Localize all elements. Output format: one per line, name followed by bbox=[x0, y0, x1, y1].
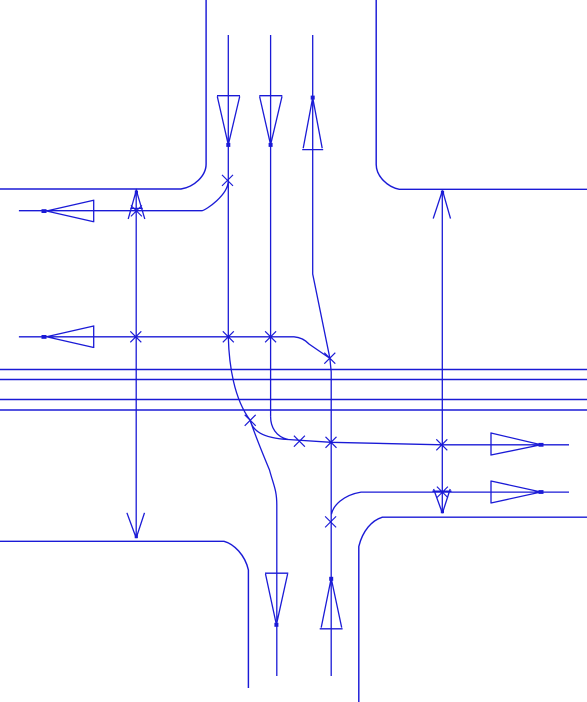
lane east-approach vertical bbox=[441, 190, 443, 513]
arrow right eastbound lane 2 bbox=[491, 481, 544, 504]
westbound lane 2 with merge curve bbox=[19, 337, 330, 359]
node marker lane L1 top bbox=[222, 175, 233, 186]
east-west road line 4 bbox=[0, 409, 587, 411]
open arrow down west approach bbox=[127, 513, 145, 538]
node marker west lane at WB2 bbox=[130, 331, 141, 342]
east-west road line 1 bbox=[0, 369, 587, 371]
arrow left westbound lane 2 bbox=[42, 325, 94, 348]
east-west road line 3 bbox=[0, 399, 587, 401]
open arrow up west approach bbox=[128, 190, 145, 219]
arrow up south road bbox=[320, 577, 343, 629]
east-west road line 2 bbox=[0, 379, 587, 381]
node marker SB curve bbox=[245, 415, 256, 426]
road edge NW corner bbox=[0, 0, 206, 189]
lane L1 southbound vertical bbox=[227, 35, 229, 337]
road edge SE corner bbox=[359, 517, 587, 702]
node marker L1 at WB2 bbox=[223, 331, 234, 342]
open arrow up east approach bbox=[433, 190, 450, 218]
westbound lane 1 with right-turn curve bbox=[19, 181, 228, 211]
arrow down south road bbox=[265, 573, 288, 627]
node marker EB1 at NB lane bbox=[326, 437, 337, 448]
connector L2 to eastbound bbox=[271, 417, 288, 440]
node marker EB1 start bbox=[294, 436, 305, 447]
node marker NB at EB2 curve bbox=[325, 516, 336, 527]
road edge NE corner bbox=[376, 0, 587, 189]
node marker west lane at WB1 bbox=[131, 205, 142, 216]
eastbound lane 1 bbox=[288, 440, 569, 445]
lane L3 northbound vertical with slant bbox=[313, 35, 332, 676]
lane L2 southbound vertical bbox=[270, 35, 272, 417]
lane west-approach vertical bbox=[135, 190, 137, 538]
open arrow down east approach bbox=[432, 489, 451, 513]
arrow down lane L2 bbox=[259, 96, 282, 147]
arrow up lane L3 bbox=[302, 96, 323, 150]
lane L1 southbound continuation curve bbox=[228, 337, 276, 676]
arrow down lane L1 bbox=[217, 96, 240, 147]
node marker EB2 at east lane bbox=[437, 487, 448, 498]
node marker NB merge bbox=[324, 353, 335, 364]
eastbound lane 2 with curve from south road bbox=[331, 492, 569, 514]
road edge SW corner bbox=[0, 541, 248, 688]
connector southbound to eastbound bbox=[250, 420, 288, 439]
arrow left westbound lane 1 bbox=[42, 200, 94, 223]
arrow right eastbound lane 1 bbox=[491, 432, 544, 455]
node marker EB1 at east lane bbox=[436, 439, 447, 450]
node marker L2 at WB2 bbox=[265, 331, 276, 342]
